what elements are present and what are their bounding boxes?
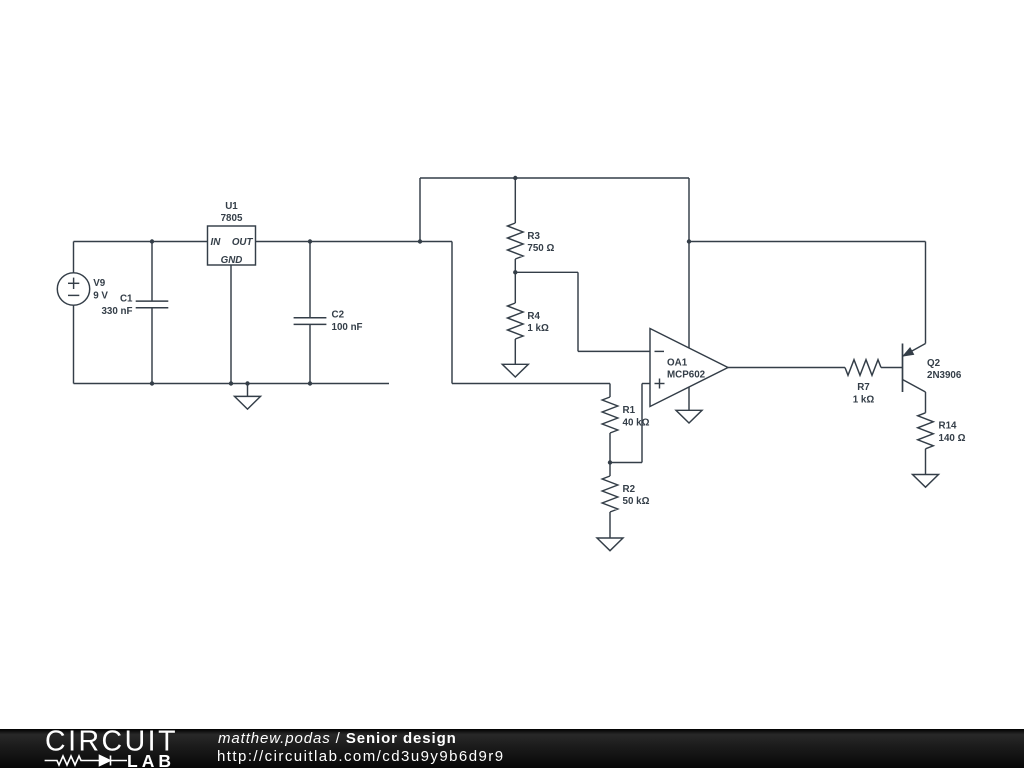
label R3 value [527, 231, 554, 254]
wire supply to emitter [689, 242, 926, 344]
pin labels IN OUT GND [211, 237, 254, 266]
op-amp plus sign [655, 379, 665, 389]
transistor Q2 2N3906 [903, 344, 926, 413]
node R1 R2 junction [608, 460, 612, 464]
op-amp V- wire [688, 387, 690, 410]
label R4 value [527, 311, 549, 334]
resistor R1 [602, 384, 618, 463]
svg-text:330 nF: 330 nF [101, 306, 132, 317]
node U1 GND [229, 381, 233, 385]
wire V9 to U1 IN [74, 241, 208, 243]
svg-text:Q2: Q2 [927, 358, 941, 369]
footer bar [0, 729, 1024, 768]
svg-text:R3: R3 [527, 231, 540, 242]
wire to op-amp inverting input [515, 272, 650, 351]
svg-text:750 Ω: 750 Ω [527, 243, 554, 254]
resistor R2 [602, 463, 618, 539]
node C2 top [308, 239, 312, 243]
resistor R14 [918, 413, 934, 475]
svg-text:40 kΩ: 40 kΩ [623, 417, 650, 428]
wire riser [419, 178, 421, 242]
ground op-amp [676, 410, 702, 423]
label R14 value [939, 421, 966, 444]
label V9 value [93, 278, 108, 301]
svg-text:2N3906: 2N3906 [927, 370, 962, 381]
svg-text:1 kΩ: 1 kΩ [853, 395, 875, 406]
regulator U1 7805 box [208, 226, 256, 265]
footer url line [217, 748, 505, 765]
svg-text:C2: C2 [332, 310, 345, 321]
op-amp OA1 V+ wire [688, 178, 690, 348]
svg-text:140 Ω: 140 Ω [939, 433, 966, 444]
resistor R3 [508, 178, 524, 272]
ground R2 [597, 538, 623, 551]
wire U1 OUT rail [256, 241, 421, 243]
node ground tap [245, 381, 249, 385]
svg-text:9 V: 9 V [93, 290, 108, 301]
node R3 R4 junction [513, 270, 517, 274]
ground R4 [502, 364, 528, 377]
wire U1 GND pin [230, 265, 232, 384]
svg-text:50 kΩ: 50 kΩ [623, 496, 650, 507]
node +5V split [418, 239, 422, 243]
capacitor C1 [136, 242, 169, 384]
svg-text:1 kΩ: 1 kΩ [527, 323, 549, 334]
label Q2 2N3906 [927, 358, 962, 381]
svg-text:U1: U1 [225, 201, 238, 212]
svg-text:R2: R2 [623, 484, 636, 495]
node op-amp supply [687, 239, 691, 243]
node C1 top [150, 239, 154, 243]
ground R14 [913, 475, 939, 488]
svg-text:R7: R7 [857, 382, 870, 393]
wire op-amp output [728, 367, 845, 369]
svg-text:R4: R4 [527, 311, 540, 322]
svg-text:R14: R14 [939, 421, 958, 432]
wire R7 to Q2 base [881, 367, 903, 369]
label OA1 MCP602 [667, 357, 706, 380]
capacitor C2 [294, 242, 327, 384]
CircuitLab logo [30, 729, 220, 768]
node C1 bottom [150, 381, 154, 385]
svg-text:R1: R1 [623, 405, 636, 416]
svg-text:7805: 7805 [221, 213, 243, 224]
wire top rail [420, 177, 689, 179]
label R7 value [853, 382, 875, 405]
resistor R4 [508, 272, 524, 364]
footer title line [218, 730, 457, 747]
svg-text:CIRCUIT: CIRCUIT [45, 729, 177, 758]
wire +5V to R1 [420, 242, 610, 384]
svg-text:LAB: LAB [127, 751, 173, 768]
svg-text:C1: C1 [120, 294, 133, 305]
node C2 bottom [308, 381, 312, 385]
svg-text:OUT: OUT [232, 237, 254, 248]
svg-text:OA1: OA1 [667, 357, 688, 368]
resistor R7 [845, 360, 881, 376]
wire to op-amp non-inverting input [610, 384, 650, 463]
label R2 value [623, 484, 650, 507]
label C1 value [101, 294, 133, 317]
node R3 top [513, 176, 517, 180]
svg-text:MCP602: MCP602 [667, 370, 706, 381]
voltage source V9 [57, 242, 89, 384]
ground main [235, 384, 261, 410]
svg-text:V9: V9 [93, 278, 106, 289]
label U1 7805 [221, 201, 243, 224]
label R1 value [623, 405, 650, 428]
svg-text:100 nF: 100 nF [332, 322, 363, 333]
op-amp minus sign [655, 350, 665, 352]
svg-text:GND: GND [221, 255, 243, 266]
svg-text:IN: IN [211, 237, 222, 248]
label C2 value [332, 310, 363, 333]
op-amp OA1 triangle [650, 329, 728, 407]
wire ground rail [74, 383, 390, 385]
